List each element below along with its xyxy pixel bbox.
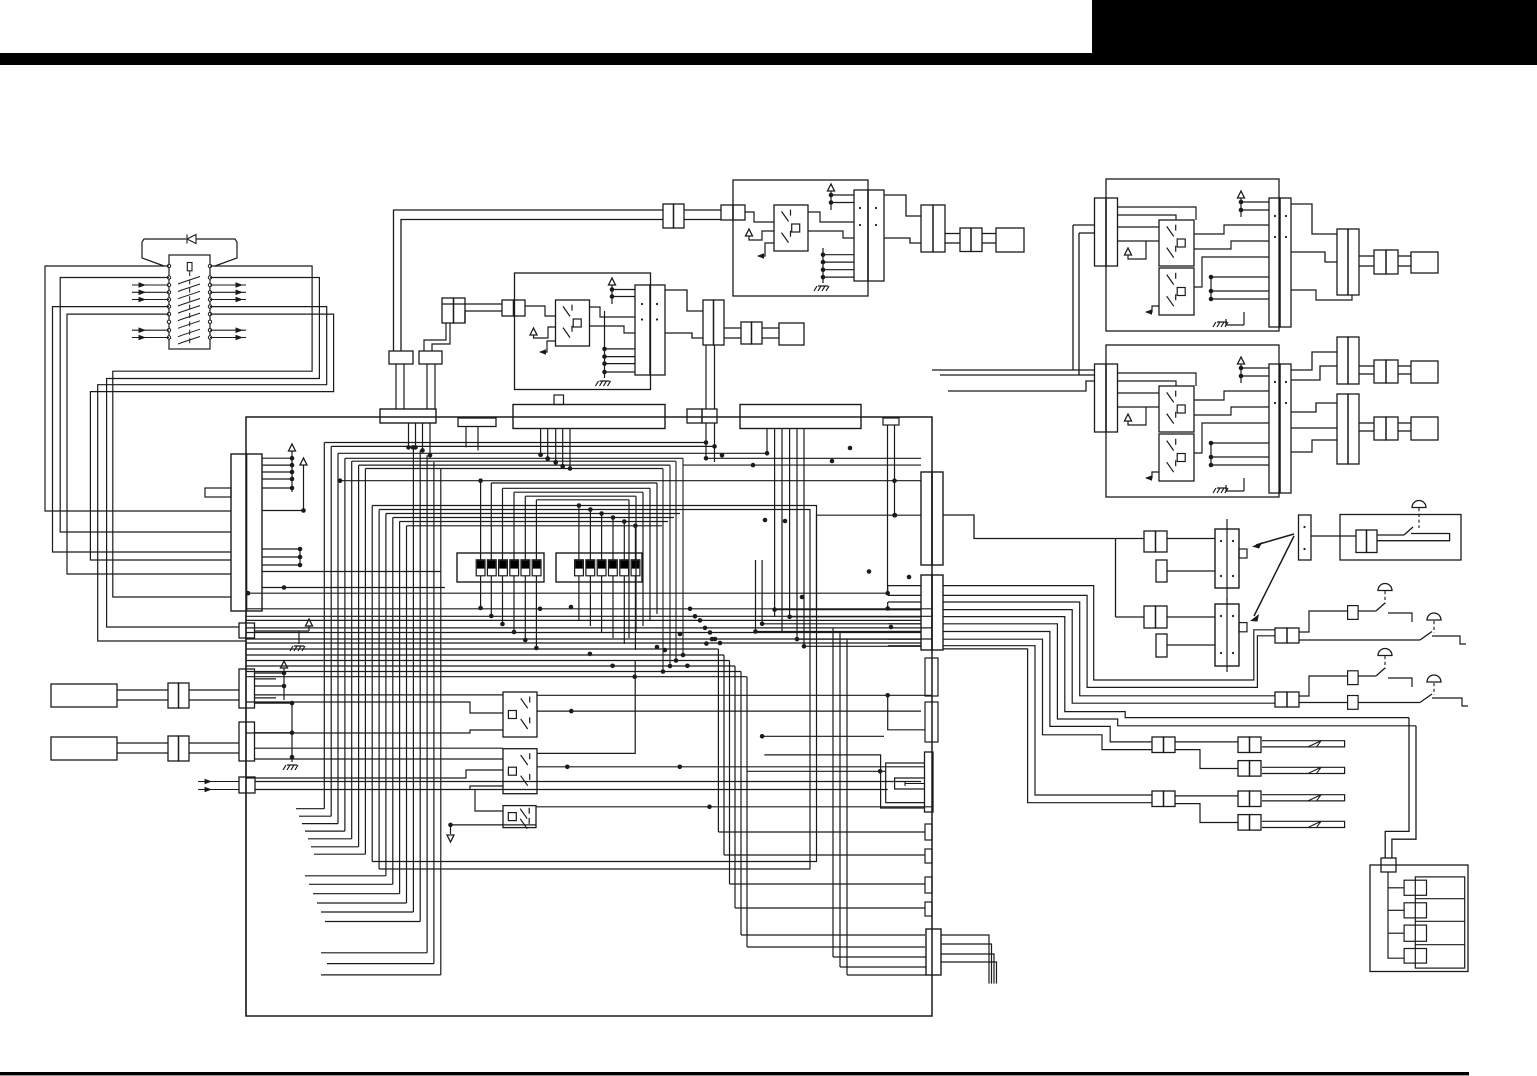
connector CN601 (left tall) [231, 454, 247, 611]
supply chain dots (box 1) [1209, 275, 1214, 280]
RL601 wires [246, 702, 503, 713]
antenna group connector B1 [1238, 791, 1250, 807]
wire CN201 to CN202 [684, 209, 721, 211]
switch S901 body [169, 255, 210, 349]
harness channel 10 [386, 513, 680, 515]
connector CN42 (right tall, box 2) [1269, 364, 1280, 493]
relay RL603 [503, 806, 536, 828]
chain C stubs [255, 678, 277, 680]
bar C pigtails [540, 429, 542, 455]
long wire CN601 pin to mid [262, 571, 441, 573]
switch S901 plunger pin [187, 263, 192, 271]
connector bar A [380, 409, 436, 423]
harness channel 16 [426, 455, 428, 953]
wire y515 to bar F [817, 515, 922, 609]
relay RL31b [1159, 268, 1194, 315]
power triangle chain C (right of CN604) [281, 661, 288, 668]
harness channel 11 [393, 517, 674, 519]
relay RL101 [556, 300, 590, 346]
relay RL32b [1159, 434, 1194, 481]
wire CN102 to CN103 [665, 290, 703, 311]
switch S901 plunger shaft (dashed) [189, 271, 191, 345]
relay-to-connector wires (mid box) [590, 307, 636, 317]
right edge mid connectors [925, 658, 938, 696]
switch S901 right output arrows [210, 284, 246, 286]
harness channel 2 [331, 445, 714, 447]
box2 right upper connector group [1291, 352, 1337, 370]
relay-to-connector wires (top box) [808, 212, 854, 222]
triangle-down net stub [448, 823, 453, 828]
power triangle (box 1) [1125, 248, 1132, 255]
lamp switch+dome [1404, 527, 1413, 535]
power triangle chain B (right of CN601) [300, 458, 307, 465]
wires CN605 to bar [189, 742, 239, 744]
connector CN41 (right tall, box 1) [1269, 198, 1280, 327]
harness channel 14 [412, 447, 414, 912]
feed wires to head unit boxes [1073, 224, 1095, 226]
DIP switch block S601 [457, 553, 544, 582]
antenna group connector A [1152, 791, 1164, 807]
S602 switch 1 [575, 560, 584, 576]
S601 switch 5 [521, 560, 530, 576]
power triangle (mid box) [530, 328, 537, 335]
antenna group connector B2 [1238, 815, 1250, 831]
bar C top tab [554, 395, 564, 405]
connector CN104 [741, 322, 752, 344]
bottom page rule [0, 1072, 1469, 1075]
harness channel 9 [379, 510, 810, 870]
bar E pigtails [766, 429, 768, 454]
bar E side tab [883, 418, 899, 425]
connector CN72 [1144, 606, 1156, 628]
S602 switch 5 [620, 560, 629, 576]
harness channel 4 [345, 457, 683, 459]
supply chain dots (box 2) [1209, 441, 1214, 446]
speaker coil element (bottom right of board) [925, 752, 934, 812]
adjustment arrows [1256, 534, 1294, 545]
relay RL601 [503, 692, 537, 737]
row2 connector [1275, 692, 1287, 707]
DIP switch block S602 [556, 553, 642, 582]
wire bar F to CN71 [943, 515, 1144, 539]
antenna group connector B2 [1238, 761, 1250, 777]
wires CN103 down to bar D [705, 345, 707, 409]
harness channel 5 [352, 460, 676, 462]
plug P205 [996, 228, 1024, 252]
S602 switch 6 [631, 560, 640, 576]
antenna rod 2 [1262, 821, 1345, 827]
plug P601 (blade) [51, 684, 117, 707]
wires CN101 to lower bars [442, 303, 502, 305]
arrow to chassis (box 2) [1146, 472, 1159, 478]
connector CN203 (tall, top box) [854, 190, 868, 281]
sub connector pair 2 [1156, 634, 1167, 657]
connector CN605 [168, 736, 179, 761]
long rows y458 y465 to right edge [706, 457, 921, 459]
trim bar 2 (motor M2) [1215, 604, 1239, 666]
harness channel 18 [440, 469, 442, 975]
wire below CN601 [245, 611, 247, 1016]
upper branch connector+switch row (y611) [1348, 606, 1359, 620]
power triangle B+ (box 1) [1238, 191, 1245, 198]
S601 switch 3 [499, 560, 508, 576]
S601 switch 2 [487, 560, 496, 576]
connector CN71 [1144, 531, 1156, 552]
arrow to chassis (relay unit top) [758, 243, 774, 256]
harness channel 8 [372, 506, 816, 862]
connector bar F (right edge) [921, 472, 932, 565]
box1 right connector group wires [1291, 204, 1337, 234]
wire CN103 to CN104 [724, 327, 741, 329]
main board outline [246, 417, 932, 1016]
wire pair from left riser to CN201 [394, 210, 664, 351]
connector CN51 (tall) [1337, 229, 1348, 295]
DIP1 riser wires [480, 481, 482, 560]
ground (top box) [822, 248, 824, 283]
connector bar CB2 [419, 351, 442, 364]
power triangle B+ (box 2) [1238, 357, 1245, 364]
relay wires (box 1) [1118, 207, 1197, 220]
connector CN102 (tall, mid box) [635, 285, 650, 375]
power triangle chain A (right of CN601) [289, 444, 296, 451]
power triangle B+ (mid box) [609, 278, 616, 285]
connector CN101 (mid box entry) [502, 300, 514, 316]
S602 switch 4 [609, 560, 618, 576]
long mid horizontal y480 [340, 480, 921, 482]
supply chain wires (top box) [830, 191, 832, 210]
junction dots cluster top [411, 445, 416, 450]
bar G feed jogs [885, 591, 890, 596]
CN601 side tab [205, 488, 231, 497]
bar E riser bends to bar G [787, 615, 792, 620]
box2 right lower connector group [1291, 403, 1337, 412]
wire down to bottom-right block [1385, 718, 1409, 858]
ground (mid box) [604, 311, 606, 378]
harness channel 3 [338, 452, 767, 454]
horizontal bus rows (board middle) [246, 608, 932, 610]
DIP2 riser wires [577, 503, 582, 508]
plug P52 [1411, 252, 1438, 273]
bar A pigtails [408, 423, 410, 447]
wire jog to right edge connector [888, 695, 925, 730]
connector CN81 [1381, 858, 1396, 872]
wire CN602 to ground/triangle [255, 630, 310, 632]
connector CN32 (left tall) [1095, 364, 1107, 432]
power triangle (box 2) [1125, 414, 1132, 421]
connector CN202 [721, 205, 733, 220]
ground (box 2) [1226, 485, 1244, 491]
long wires from CN607 [255, 781, 921, 783]
far right row1 connector [1275, 628, 1287, 643]
S602 switch 3 [597, 560, 606, 576]
wire fan bar G to right units [943, 586, 1275, 680]
sub connector pair 1 [1156, 560, 1167, 582]
switch S901 left input arrows [132, 284, 169, 286]
connector CN73 (in lamp box) [1356, 530, 1367, 553]
connector CN205 [960, 228, 971, 252]
header title bar (black) [0, 53, 1092, 65]
supply chain D with ground [291, 703, 293, 762]
inline connector CN607 with input arrows [198, 781, 239, 783]
wires CN105 down to bar connectors [424, 323, 446, 351]
diode D901 on hat top [187, 235, 196, 244]
harness channel 1 [324, 442, 706, 444]
connector CN105 [442, 298, 454, 323]
connector bar G (right edge) [921, 575, 932, 650]
row1 switch and dome [1420, 632, 1432, 641]
wires bars down to connector A [395, 364, 397, 409]
inline connector CN602 [239, 623, 255, 638]
switch S901 contact rings and wipers [167, 264, 170, 267]
harness channel 7 [365, 468, 663, 470]
relay RL31a [1159, 220, 1194, 266]
power triangle (relay unit top) [746, 229, 753, 236]
antenna group wires [1175, 795, 1238, 797]
lamp rod [1377, 534, 1404, 536]
relay RL201 [774, 205, 808, 251]
connector bar E (long) [740, 405, 861, 429]
antenna rod 1 [1262, 795, 1345, 801]
connector CN103 [703, 300, 714, 345]
plug P104 [779, 323, 804, 345]
plug P602 (blade) [51, 737, 117, 760]
S601 switch 1 [476, 560, 485, 576]
S601 switch 4 [510, 560, 519, 576]
antenna rod 1 [1262, 741, 1345, 747]
wire CN51 to CN52 [1359, 255, 1374, 257]
connector bar H (right edge bottom) [926, 929, 941, 975]
wires P602 to CN605 [117, 742, 168, 744]
wire CN203 to CN204 [884, 195, 921, 216]
row1 upper branch [1299, 611, 1347, 632]
long wires from CN604/CN606 pins [255, 694, 504, 696]
wire bus switch-left to lower connector [45, 266, 231, 511]
bar H exit wires [941, 935, 989, 984]
connector bar CB1 [389, 351, 413, 364]
lamp unit wiring [1311, 535, 1356, 537]
block inner connector rows [1415, 877, 1464, 968]
S601 switch 6 [532, 560, 541, 576]
arrow to chassis (box 1) [1146, 306, 1159, 312]
connector bar CN606 [239, 722, 255, 761]
connector CN204 [921, 205, 933, 252]
wire bus switch-right loop back [113, 266, 312, 597]
relay RL32a [1159, 386, 1194, 432]
harness channel 15 [419, 450, 421, 921]
tab riser wires [887, 425, 889, 593]
pointer bar [1299, 515, 1312, 560]
connector CN603 [168, 683, 179, 708]
connector CN201 [663, 204, 674, 228]
wires CN603 to bar [189, 689, 239, 691]
trim bar 1 (motor M1) [1215, 529, 1239, 588]
bar G left stubs [888, 585, 921, 587]
block feed comb [1388, 872, 1404, 958]
block cell plugs [1404, 880, 1426, 895]
RL603 wires [475, 790, 503, 811]
right edge stub connectors [925, 824, 932, 840]
wires P601 to CN603 [117, 689, 168, 691]
wire CN204 to CN205 [945, 233, 960, 235]
harness channel 12 [400, 521, 668, 523]
bottom right block outline [1370, 865, 1468, 972]
relay unit box (top) [733, 180, 868, 296]
relay RL602 [503, 749, 537, 794]
harness channel 6 [359, 464, 670, 466]
bar B pigtails [465, 427, 467, 448]
head unit box 1 [1106, 179, 1279, 331]
relay wires (box 2) [1118, 373, 1197, 386]
S602 switch 2 [586, 560, 595, 576]
bus row junction dots (right side) [688, 607, 693, 612]
branch riser to CN72 [1115, 539, 1117, 618]
ground (box 1) [1226, 319, 1244, 325]
connector bar B [458, 418, 496, 427]
antenna rod 2 [1262, 767, 1345, 773]
wire CN71 to trim bar 1 [1167, 538, 1215, 540]
connector CN52 [1374, 250, 1386, 274]
connector bar CN604 [239, 669, 255, 708]
antenna group connector B1 [1238, 737, 1250, 753]
harness channel 17 [433, 462, 435, 964]
bar D pigtails [705, 423, 707, 458]
CN601 lower stubs [298, 547, 303, 552]
header corner block (black) [1092, 0, 1537, 65]
relay unit box (mid) [515, 273, 651, 390]
head unit box 2 [1106, 345, 1279, 497]
antenna group wires [1175, 741, 1238, 743]
extra drop verticals to bar H [832, 628, 834, 957]
harness channel 13 [407, 525, 663, 527]
RL602 wires [246, 770, 503, 778]
arrow to chassis (mid box) [540, 341, 556, 352]
power triangle B+ (top box) [828, 184, 835, 191]
row2 branches [1299, 676, 1347, 696]
connector bar D [687, 409, 702, 423]
switch S901 mounting hat outline [142, 239, 186, 266]
horizontal rows lower mid with corner drops to right-edge stubs [246, 648, 718, 650]
lamp unit box [1340, 515, 1461, 561]
connector CN31 (left tall) [1095, 198, 1107, 266]
antenna group connector A [1152, 737, 1164, 753]
connector bar C (long) [513, 405, 665, 429]
